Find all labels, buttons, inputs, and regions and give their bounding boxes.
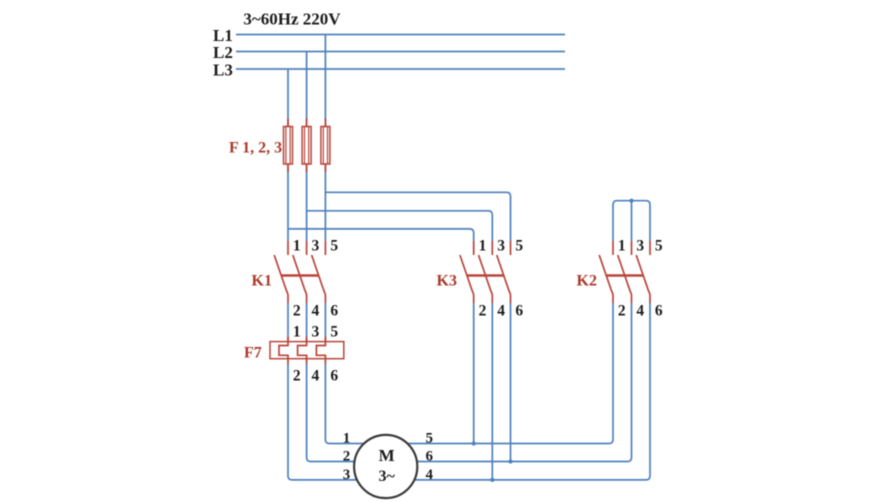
junction K3-4 on motor-4 net xyxy=(490,478,494,482)
svg-text:6: 6 xyxy=(515,303,523,320)
wire star bus center drop to K2 pole 3 xyxy=(631,201,633,241)
svg-text:1: 1 xyxy=(343,430,351,446)
wire rail L2 xyxy=(236,51,565,53)
overload relay F7 box xyxy=(270,342,344,359)
wire K1 pole to F7 heater 2 xyxy=(306,303,308,345)
junction K3-6 on motor-6 net xyxy=(508,459,512,463)
svg-text:4: 4 xyxy=(312,367,320,384)
contactor K1 pole 5-6 contact xyxy=(312,241,326,303)
wire rail L3 xyxy=(236,68,565,70)
svg-text:K2: K2 xyxy=(577,273,597,290)
svg-text:L3: L3 xyxy=(213,61,233,80)
svg-text:3: 3 xyxy=(312,237,320,254)
svg-text:K3: K3 xyxy=(437,273,457,290)
wire motor W1 net: F7-2 to motor 3 to K2 pole 6 xyxy=(288,303,650,480)
svg-text:1: 1 xyxy=(479,237,487,254)
svg-text:6: 6 xyxy=(330,367,338,384)
contactor K2 pole 1-2 contact xyxy=(599,241,613,303)
contactor K2 pole 3-4 contact xyxy=(618,241,632,303)
svg-text:5: 5 xyxy=(515,237,523,254)
svg-text:2: 2 xyxy=(293,367,301,384)
svg-text:6: 6 xyxy=(655,303,663,320)
wire K3 pole 4 drop to motor-4 net xyxy=(491,303,493,480)
contactor K3 actuator bar xyxy=(467,274,504,276)
F7 heater 1 xyxy=(279,337,288,365)
wire motor V1 net: F7-4 to motor 2 to K2 pole 4 xyxy=(307,303,632,462)
svg-text:5: 5 xyxy=(330,237,338,254)
contactor K3 pole 5-6 contact xyxy=(497,241,511,303)
contactor K1 pole 3-4 contact xyxy=(293,241,307,303)
svg-text:2: 2 xyxy=(618,303,626,320)
wire branch phase B to K3 pole 3 xyxy=(307,211,493,241)
svg-text:1: 1 xyxy=(293,324,301,341)
wire motor U1 net: F7-6 to motor 1 to K2 pole 2 xyxy=(325,303,613,444)
svg-text:3: 3 xyxy=(343,467,351,483)
svg-text:6: 6 xyxy=(426,448,434,464)
wire phase A drop from L1 to K1 pole 5 xyxy=(324,35,326,242)
wire K1 pole to F7 heater 1 xyxy=(287,303,289,345)
svg-text:5: 5 xyxy=(330,324,338,341)
fuse F3 xyxy=(321,119,330,173)
junction K3-2 on motor-5 net xyxy=(472,441,476,445)
svg-text:3: 3 xyxy=(636,237,644,254)
svg-text:5: 5 xyxy=(655,237,663,254)
svg-text:K1: K1 xyxy=(252,273,272,290)
svg-text:2: 2 xyxy=(479,303,487,320)
wire K3 pole 2 drop to motor-5 net xyxy=(473,303,475,444)
svg-text:3~60Hz 220V: 3~60Hz 220V xyxy=(243,10,341,29)
svg-text:4: 4 xyxy=(497,303,505,320)
fuse F2 xyxy=(302,119,311,173)
svg-text:1: 1 xyxy=(293,237,301,254)
svg-text:6: 6 xyxy=(330,303,338,320)
contactor K2 pole 5-6 contact xyxy=(636,241,650,303)
fuse F1 xyxy=(284,119,293,173)
F7 heater 2 xyxy=(298,337,307,365)
contactor K3 pole 1-2 contact xyxy=(460,241,474,303)
contactor K3 pole 3-4 contact xyxy=(479,241,493,303)
wire K1 pole to F7 heater 3 xyxy=(324,303,326,345)
svg-text:3: 3 xyxy=(312,324,320,341)
wire rail L1 xyxy=(236,34,565,36)
svg-text:M: M xyxy=(379,446,395,465)
wire phase C drop from L3 to K1 pole 1 xyxy=(287,69,289,241)
wire branch phase C to K3 pole 1 xyxy=(288,229,474,241)
svg-text:F7: F7 xyxy=(244,344,262,361)
motor M1 circle xyxy=(354,435,417,498)
contactor K1 actuator bar xyxy=(282,274,319,276)
svg-text:L2: L2 xyxy=(213,43,233,62)
svg-text:3~: 3~ xyxy=(379,468,396,485)
wire phase B drop from L2 to K1 pole 3 xyxy=(306,52,308,242)
junction star bus node xyxy=(629,199,633,203)
svg-text:4: 4 xyxy=(426,467,434,483)
svg-text:2: 2 xyxy=(293,303,301,320)
wire branch phase A to K3 pole 5 xyxy=(325,192,510,241)
svg-text:4: 4 xyxy=(636,303,644,320)
svg-text:2: 2 xyxy=(343,448,351,464)
F7 heater 3 xyxy=(316,337,325,365)
svg-text:3: 3 xyxy=(497,237,505,254)
wire star bus over K2 xyxy=(613,201,650,241)
svg-text:5: 5 xyxy=(426,430,434,446)
contactor K1 pole 1-2 contact xyxy=(274,241,288,303)
contactor K2 actuator bar xyxy=(607,274,644,276)
svg-text:F 1, 2, 3: F 1, 2, 3 xyxy=(229,140,282,157)
svg-text:1: 1 xyxy=(618,237,626,254)
wire K3 pole 6 drop to motor-6 net xyxy=(510,303,512,462)
svg-text:4: 4 xyxy=(312,303,320,320)
